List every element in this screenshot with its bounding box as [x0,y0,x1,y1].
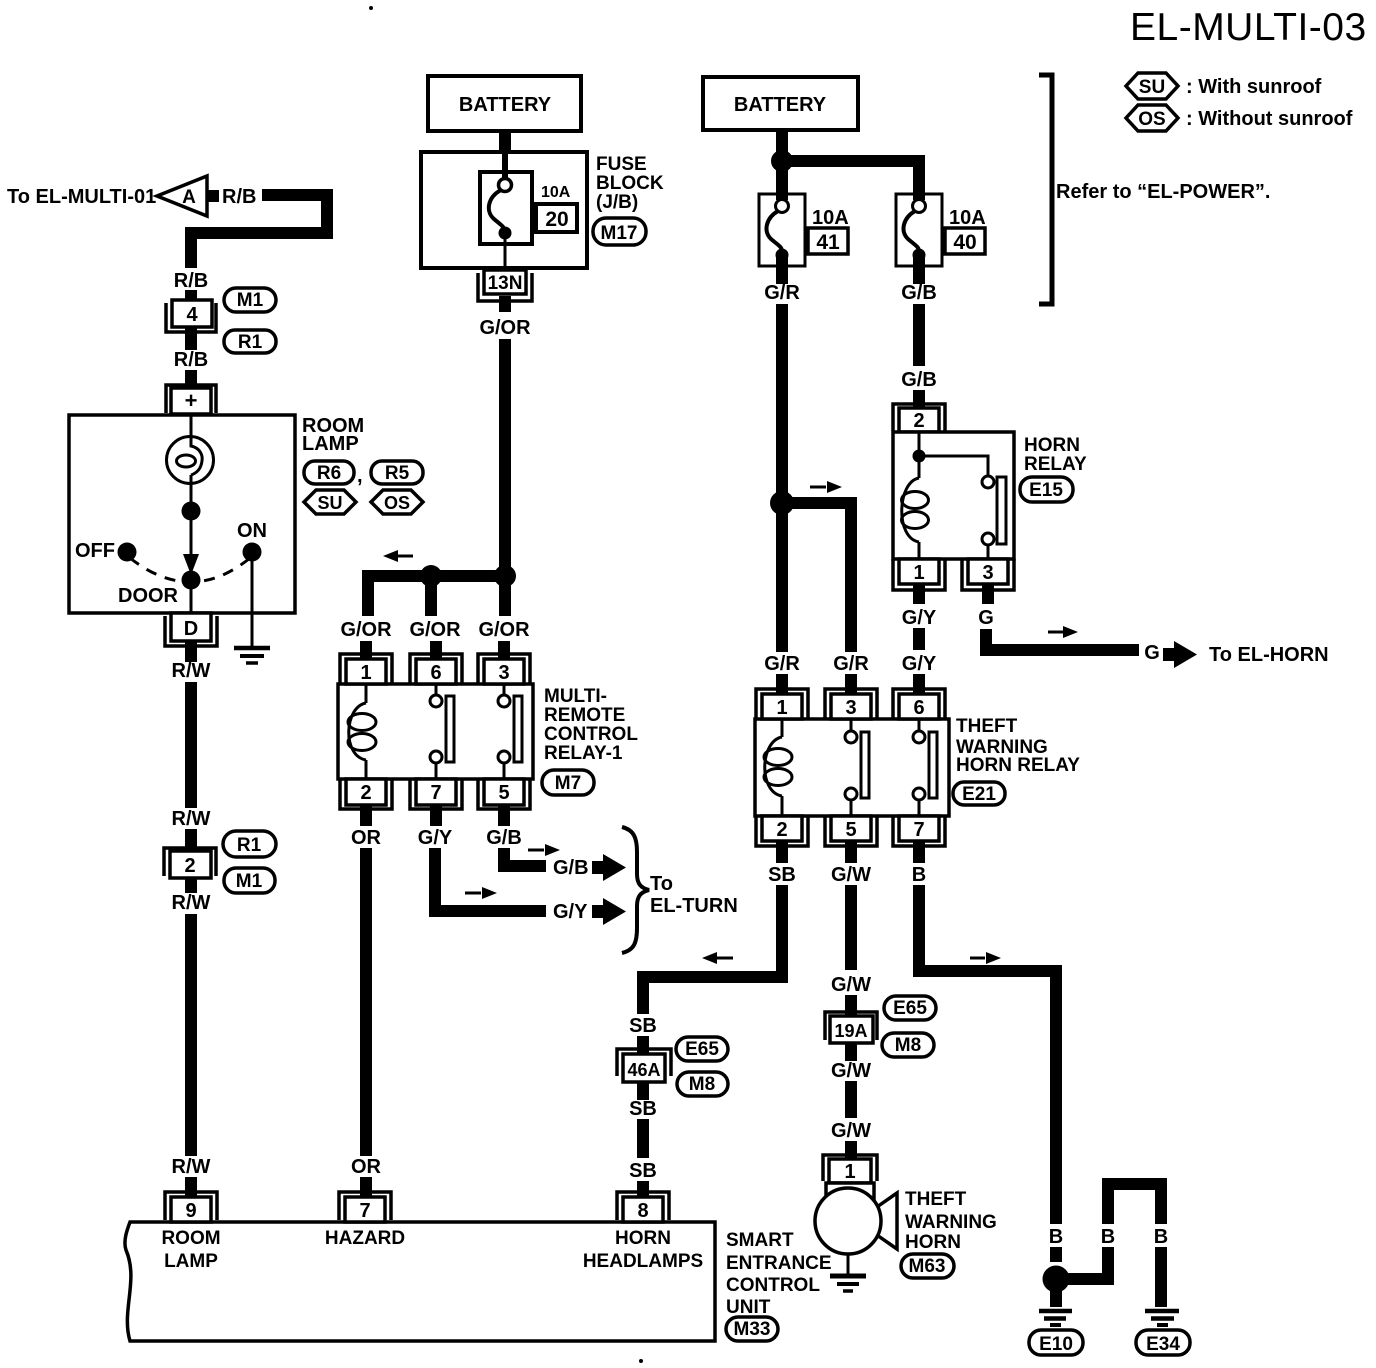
svg-text:3: 3 [845,697,856,719]
svg-text:: Without sunroof: : Without sunroof [1186,108,1353,130]
connector ref E65 [884,996,936,1020]
svg-text:E15: E15 [1029,480,1063,501]
wire G/W short [845,1081,857,1118]
connector pin 6 M7 [410,654,462,684]
svg-text:To EL-MULTI-01: To EL-MULTI-01 [7,186,156,208]
wire stub G/B [913,390,925,412]
wire OR long [360,848,372,1156]
connector pin 2 M7 [340,779,392,809]
relay M7 box [338,684,533,779]
arrow to EL-TURN G/B [592,854,626,881]
junction dot [182,502,201,521]
small arrow right G [1048,626,1078,638]
fuse number 20 box [536,204,577,232]
junction dot E15 [913,450,926,463]
svg-text:G/R: G/R [764,653,800,675]
svg-text:BATTERY: BATTERY [459,94,552,116]
contact E15 [919,456,1006,559]
wire stub pin1 E21 [776,674,788,696]
wire stub G/W [845,995,857,1018]
brace To EL-TURN [622,827,649,953]
wire R/W long [185,914,197,1156]
svg-text:G/B: G/B [901,282,937,304]
label ROOM LAMP port [161,1228,220,1272]
svg-text:46A: 46A [627,1060,660,1080]
svg-text:G/R: G/R [833,653,869,675]
relay E21 box [755,719,949,816]
svg-text:3: 3 [982,562,993,584]
svg-text:HORN RELAY: HORN RELAY [956,755,1080,776]
svg-text:R1: R1 [238,332,263,353]
connector pin 7 E21 [893,816,945,846]
svg-text:ENTRANCE: ENTRANCE [726,1253,832,1274]
wire SB short [637,1119,649,1158]
svg-text:M8: M8 [895,1035,921,1056]
svg-text:SU: SU [317,493,342,513]
smart entrance control unit box M33 [125,1222,715,1341]
option OS hexagon [371,490,423,514]
wire stub pin7 [430,805,442,826]
wire G/OR junction run [368,576,505,616]
label To EL-TURN [650,873,738,917]
wire DOOR to D [190,580,193,613]
wire pin2 to junction [918,432,921,452]
wire stub pin3 [498,641,510,662]
svg-text:R/W: R/W [172,1156,211,1178]
arrow left G/OR [383,550,413,562]
junction dot G/OR left [420,565,442,587]
wire stub [185,290,197,302]
svg-text:HORN: HORN [615,1228,671,1249]
svg-text:MULTI-: MULTI- [544,686,607,707]
connector pin 1 E21 [756,689,808,719]
svg-text:EL-TURN: EL-TURN [650,895,738,917]
svg-text:OR: OR [351,1156,382,1178]
svg-text:R1: R1 [237,835,262,856]
svg-text:Refer to “EL-POWER”.: Refer to “EL-POWER”. [1056,181,1270,203]
connector 7 control unit [339,1192,391,1222]
wire stub pin7 E21 [913,841,925,863]
svg-text:13N: 13N [488,273,523,294]
label MULTI-REMOTE CONTROL RELAY-1 [544,686,638,764]
connector pin 1 M7 [340,654,392,684]
contact 3-5 E21 [845,719,869,816]
label THEFT WARNING HORN RELAY [956,716,1080,776]
svg-text:(J/B): (J/B) [596,192,638,213]
wire lamp to junction [190,475,193,511]
wire stub G/W [845,1141,857,1160]
wire SB elbow [643,885,788,1014]
connector pin 2 E21 [756,816,808,846]
svg-text:FUSE: FUSE [596,154,647,175]
connector ref M1 [224,288,276,312]
wire G/B [913,304,925,366]
svg-text:THEFT: THEFT [905,1189,967,1210]
wire stub pin3 E21 [845,674,857,696]
wire into lamp [190,414,193,438]
wire stub below fuse 41 [776,257,788,284]
svg-text:2: 2 [776,819,787,841]
junction dot G/R [770,491,794,515]
coil E15 [902,456,929,559]
svg-text:G/W: G/W [831,974,871,996]
label HORN RELAY [1024,435,1087,475]
svg-text:THEFT: THEFT [956,716,1018,737]
svg-text:G/W: G/W [831,1120,871,1142]
svg-text:To EL-HORN: To EL-HORN [1209,644,1329,666]
svg-text:SU: SU [1139,77,1165,98]
connector pin 3 E21 [825,689,877,719]
svg-text:SB: SB [768,864,796,886]
svg-text:5: 5 [845,819,856,841]
svg-text:E65: E65 [893,998,927,1019]
svg-text:3: 3 [498,662,509,684]
svg-text:R6: R6 [317,463,341,484]
wire stub SB [637,1181,649,1199]
svg-text:19A: 19A [834,1021,867,1041]
wire horn to ground [847,1254,850,1274]
wire stub below 19A [845,1043,857,1061]
small arrow right G/Y [465,887,497,899]
fuse number 41 box [808,228,848,254]
wire R/B from EL-MULTI-01 [191,195,327,268]
svg-text:1: 1 [776,697,787,719]
svg-text:E21: E21 [962,784,996,805]
svg-text:G/OR: G/OR [478,619,530,641]
svg-text:G/B: G/B [901,369,937,391]
ground room lamp [234,648,270,663]
room lamp box R6/R5 [69,415,295,613]
wire stub below D [185,641,197,662]
wire B to E34 ground [1155,1247,1167,1307]
svg-text:10A: 10A [949,207,986,229]
connector 8 control unit [617,1192,669,1222]
fuse 10A 41 [759,194,805,266]
connector ref R5 [371,461,423,484]
svg-text:CONTROL: CONTROL [544,724,638,745]
label FUSE BLOCK (J/B) [596,154,664,213]
svg-text:G/B: G/B [486,827,522,849]
svg-text:M8: M8 [689,1074,715,1095]
svg-text:5: 5 [498,782,509,804]
svg-text:R/B: R/B [174,349,208,371]
wire stub [185,370,197,392]
room lamp bulb [167,437,214,484]
wire stub G/Y [913,674,925,696]
connector ref E65 [676,1037,728,1061]
battery box 1 [428,76,581,131]
wire B elbow right [913,885,1062,1224]
svg-text:REMOTE: REMOTE [544,705,625,726]
wire stub below fuse 40 [913,257,925,284]
ground E34 [1145,1311,1179,1325]
svg-text:R/W: R/W [172,892,211,914]
connector D room lamp [165,613,217,646]
connector pin 6 E21 [893,689,945,719]
dashed switch arc [130,558,250,582]
svg-text:8: 8 [637,1200,648,1222]
svg-text:2: 2 [913,410,924,432]
svg-text:HORN: HORN [905,1232,961,1253]
svg-text:ON: ON [237,520,267,542]
connector 13N [478,270,532,301]
switch arrow to DOOR [183,511,199,575]
legend OS hexagon [1126,105,1178,131]
svg-text:G/W: G/W [831,864,871,886]
svg-text:DOOR: DOOR [118,585,179,607]
svg-text:WARNING: WARNING [905,1212,997,1233]
connector ref M8 [882,1033,934,1057]
svg-text:R/W: R/W [172,660,211,682]
connector 19A (E65/M8) [825,1012,877,1043]
wire stub OR [360,1177,372,1199]
svg-text:G/Y: G/Y [418,827,453,849]
wire stub pin1 [360,641,372,662]
wire stub below pin1 E15 [913,585,925,604]
svg-text:M1: M1 [236,871,263,892]
bracket refer to EL-POWER [1039,75,1052,304]
connector ref M17 [593,218,646,245]
wire battery to fuse block [499,131,511,156]
connector ref R1 [224,330,276,353]
svg-text:E10: E10 [1039,1334,1073,1355]
svg-text:G/OR: G/OR [409,619,461,641]
wire G/R branch to pin3 [782,503,857,652]
svg-text:40: 40 [953,231,976,254]
svg-text:RELAY-1: RELAY-1 [544,743,623,764]
svg-text:G/Y: G/Y [902,607,937,629]
svg-text:UNIT: UNIT [726,1297,771,1318]
wire G/W down [845,885,857,970]
svg-text:OS: OS [1138,109,1165,130]
wire G to EL-HORN [980,629,1139,650]
svg-text:2: 2 [184,855,195,877]
svg-text:R/B: R/B [174,270,208,292]
wire stub pin6 [430,641,442,662]
switch contact DOOR [182,571,201,590]
svg-text:7: 7 [359,1200,370,1222]
arrow left SB [702,952,733,964]
wire stub pin2 E21 [776,841,788,863]
svg-text:B: B [1154,1226,1168,1248]
svg-text:OFF: OFF [75,540,115,562]
svg-text:G/Y: G/Y [902,653,937,675]
junction dot battery2 [771,150,793,172]
wire stub [185,1177,197,1199]
arrow right B [970,952,1001,964]
battery box 2 [703,77,858,130]
connector ref E15 [1020,477,1073,502]
wire stub below 13N [499,296,511,312]
label HORN HEADLAMPS port [583,1228,703,1272]
svg-text:,: , [357,465,363,487]
ground E10 [1039,1290,1072,1325]
svg-text:SB: SB [629,1098,657,1120]
svg-text:OS: OS [384,493,410,513]
svg-text:D: D [184,618,198,640]
connector pin 2 E15 [893,404,945,432]
fuse 10A 40 [896,194,942,266]
svg-text:G: G [1144,642,1160,664]
theft warning horn symbol [815,1183,897,1254]
svg-text:G/R: G/R [764,282,800,304]
svg-text:R/W: R/W [172,808,211,830]
svg-text:6: 6 [913,697,924,719]
svg-text:OR: OR [351,827,382,849]
wire stub SB [637,1036,649,1056]
wire G/OR down [499,339,511,576]
svg-text:R/B: R/B [222,186,256,208]
connector arrow A to EL-MULTI-01 [157,176,219,216]
svg-text:LAMP: LAMP [164,1251,218,1272]
svg-text:M17: M17 [601,223,638,244]
junction dot B [1043,1266,1070,1293]
coil M7 [348,684,376,779]
wire stub [185,829,197,850]
wire stub pin5 [498,805,510,826]
svg-text:CONTROL: CONTROL [726,1275,820,1296]
wire G/Y to EL-TURN [429,848,546,911]
svg-text:M1: M1 [237,290,264,311]
scan dot bottom [639,1359,643,1363]
connector 2 (R1/M1) [164,848,216,878]
svg-text:ROOM: ROOM [161,1228,220,1249]
contact 6-7 M7 [430,684,454,779]
connector ref M63 [901,1254,954,1278]
svg-text:To: To [650,873,673,895]
svg-text:2: 2 [360,782,371,804]
switch contact OFF [118,543,137,562]
svg-text:EL-MULTI-03: EL-MULTI-03 [1130,6,1367,49]
svg-text:E65: E65 [685,1039,719,1060]
wire ON to ground [251,560,254,646]
label SMART ENTRANCE CONTROL UNIT [726,1230,832,1318]
connector pin 3 M7 [478,654,530,684]
connector ref M7 [542,770,594,795]
svg-text:LAMP: LAMP [302,433,359,455]
arrow to EL-TURN G/Y [592,898,626,925]
svg-text:10A: 10A [541,184,571,201]
svg-text:1: 1 [913,562,924,584]
svg-text:1: 1 [844,1161,855,1183]
wire stub below connector 2 [185,878,197,893]
svg-text:G/W: G/W [831,1060,871,1082]
connector 9 control unit [165,1192,217,1222]
svg-text:HEADLAMPS: HEADLAMPS [583,1251,703,1272]
wire G/OR branch to pin 6 [425,576,437,616]
svg-text:SB: SB [629,1160,657,1182]
svg-text:B: B [1101,1226,1115,1248]
scan dot top [369,6,373,10]
connector 4 (M1/R1) [166,300,216,332]
wire G/B to EL-TURN [498,848,546,866]
svg-text:M33: M33 [734,1319,771,1340]
svg-text:R5: R5 [385,463,410,484]
connector + room lamp [166,385,216,414]
fuse 10A 20 [480,152,532,268]
svg-text:: With sunroof: : With sunroof [1186,76,1322,98]
svg-text:20: 20 [545,208,568,231]
connector ref M1 [224,868,275,893]
svg-text:4: 4 [186,304,198,326]
svg-text:G: G [978,607,994,629]
svg-text:B: B [1049,1226,1063,1248]
svg-text:G/OR: G/OR [340,619,392,641]
connector ref R6 [304,461,363,487]
small arrow right G/B [528,844,560,856]
connector pin 1 E15 [893,559,945,590]
ground ref E34 [1136,1330,1190,1355]
svg-text:6: 6 [430,662,441,684]
wire stub pin5 E21 [845,841,857,863]
connector ref M33 [726,1317,778,1341]
arrow right G/R branch [810,481,842,493]
wire stub below 46A [637,1082,649,1100]
connector ref R1 [223,831,276,857]
svg-text:G/Y: G/Y [553,901,588,923]
connector pin 3 E15 [962,559,1014,590]
wire B n-shape to E34 [1056,1184,1161,1285]
wire battery2 down [782,130,925,200]
svg-text:G/B: G/B [553,857,589,879]
svg-text:G/OR: G/OR [479,317,531,339]
connector 1 horn M63 [823,1155,877,1183]
wire stub below connector 4 [185,327,197,350]
connector pin 7 M7 [410,779,462,809]
coil E21 [764,719,792,816]
svg-text:SMART: SMART [726,1230,794,1251]
fuse number 40 box [945,228,985,254]
arrow to EL-HORN [1163,641,1197,668]
svg-text:BATTERY: BATTERY [734,94,827,116]
connector pin 5 E21 [825,816,877,846]
fuse block J/B box M17 [421,152,587,268]
wire R/W [185,682,197,808]
ground horn [830,1276,866,1291]
label ROOM LAMP [302,415,364,455]
wire stub pin2 [360,805,372,826]
ground ref E10 [1029,1330,1083,1355]
connector 46A (E65/M8) [617,1049,671,1082]
wire B into dot [1050,1247,1062,1262]
connector ref E21 [953,782,1005,805]
svg-text:SB: SB [629,1015,657,1037]
connector pin 5 M7 [478,779,530,809]
connector ref M8 [677,1072,728,1096]
svg-text:M63: M63 [909,1256,946,1277]
svg-text:BLOCK: BLOCK [596,173,664,194]
wire G/R long [776,304,788,652]
svg-text:7: 7 [430,782,441,804]
svg-text:B: B [912,864,926,886]
contact 6-7 E21 [913,719,937,816]
relay E15 box [893,432,1014,559]
junction dot G/OR right [494,565,516,587]
label THEFT WARNING HORN [905,1189,997,1253]
svg-text:M7: M7 [555,773,581,794]
svg-text:41: 41 [816,231,840,254]
svg-text:E34: E34 [1146,1334,1180,1355]
contact 3-5 M7 [498,684,522,779]
svg-text:+: + [185,388,198,413]
svg-text:1: 1 [360,662,371,684]
svg-text:10A: 10A [812,207,849,229]
switch contact ON [243,543,262,562]
wire stub below pin3 E15 [982,585,994,604]
legend SU hexagon [1126,73,1178,99]
option SU hexagon [304,490,356,514]
svg-text:A: A [182,187,196,208]
